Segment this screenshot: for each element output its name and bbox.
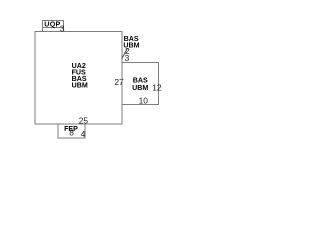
porch UQP label box xyxy=(43,21,64,32)
dimension 3 (UQP depth) xyxy=(60,24,65,34)
svg-text:UBM: UBM xyxy=(132,84,148,92)
front porch FEP box xyxy=(58,124,85,138)
svg-text:UQP: UQP xyxy=(44,21,60,29)
label FEP xyxy=(64,125,78,133)
dimension 2 (bump-out) xyxy=(125,46,130,56)
svg-text:UBM: UBM xyxy=(72,81,88,89)
dimension 27 (main right wall) xyxy=(114,77,124,87)
main area labels UA2 FUS BAS UBM xyxy=(72,62,88,89)
svg-text:3: 3 xyxy=(125,53,130,63)
svg-text:3: 3 xyxy=(60,24,65,34)
svg-text:10: 10 xyxy=(139,95,149,105)
right-edge labels BAS UBM (bump-out annotation) xyxy=(123,35,139,49)
svg-text:8: 8 xyxy=(69,127,74,137)
right addition box (BAS UBM 10x12) xyxy=(122,63,159,105)
addition labels BAS UBM xyxy=(132,76,148,92)
svg-text:12: 12 xyxy=(152,82,162,92)
dimension 4 (FEP) xyxy=(81,129,86,139)
dimension 25 (main bottom wall) xyxy=(79,116,89,126)
dimension 8 (FEP) xyxy=(69,127,74,137)
leader line (diagonal) xyxy=(122,49,127,59)
dimension 12 (addition right wall) xyxy=(152,82,162,92)
dimension 10 (addition bottom wall) xyxy=(139,95,149,105)
label UQP xyxy=(44,21,60,29)
main building outline xyxy=(35,32,122,125)
svg-text:4: 4 xyxy=(81,129,86,139)
dimension 3 (bump-out) xyxy=(125,53,130,63)
svg-text:27: 27 xyxy=(114,77,124,87)
